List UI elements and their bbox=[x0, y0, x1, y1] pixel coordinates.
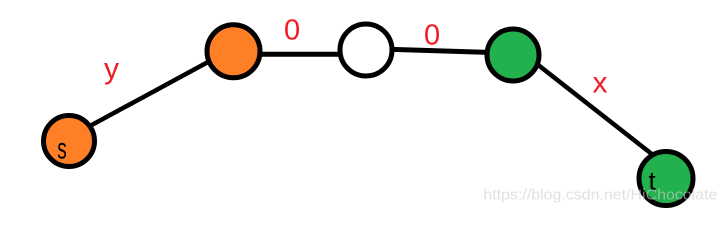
svg-text:0: 0 bbox=[284, 15, 300, 47]
svg-text:s: s bbox=[57, 133, 66, 166]
wire n3-t (edge x) bbox=[515, 47, 662, 162]
wire n2-n3 (edge 0) bbox=[388, 49, 492, 52]
node n3 (green) bbox=[487, 29, 539, 81]
node t (green) bbox=[639, 152, 693, 206]
node s (orange) bbox=[44, 116, 95, 167]
node n1 (orange) bbox=[207, 25, 260, 78]
svg-text:0: 0 bbox=[424, 19, 440, 51]
svg-text:https://blog.csdn.net/HiChocol: https://blog.csdn.net/HiChocolate bbox=[483, 187, 717, 204]
wire n1-n2 (edge 0) bbox=[245, 52, 350, 57]
node n2 (white) bbox=[340, 24, 392, 76]
wire s-n1 (edge y) bbox=[65, 47, 235, 139]
svg-text:y: y bbox=[104, 53, 119, 86]
svg-text:x: x bbox=[593, 66, 608, 99]
